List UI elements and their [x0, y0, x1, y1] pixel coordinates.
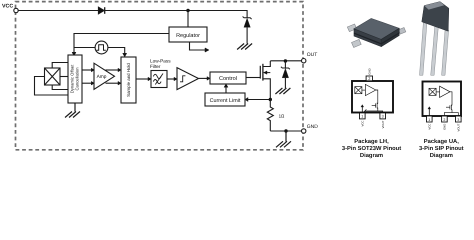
package LH caption: [342, 138, 401, 159]
diode D1 reverse protection: [98, 7, 104, 14]
svg-text:Dynamic Offset: Dynamic Offset: [69, 64, 74, 93]
amp (LH pinout): [362, 84, 376, 95]
pin 3 pad (UA): [456, 116, 462, 122]
ground at substrate: [276, 131, 291, 147]
svg-text:Low-Pass: Low-Pass: [150, 58, 171, 63]
clock oscillator: [95, 41, 108, 54]
zener clamp at output: [281, 61, 290, 88]
signal wires amp to sample and hold: [106, 68, 122, 85]
control block: [210, 72, 246, 84]
svg-text:1: 1: [361, 115, 363, 119]
svg-text:GND: GND: [443, 124, 447, 130]
svg-text:Control: Control: [219, 75, 237, 82]
signal wires offset cancellation to amp: [82, 68, 94, 85]
svg-text:Amp: Amp: [97, 74, 107, 80]
wire source sense to current limit: [245, 98, 270, 102]
wire regulator input: [187, 11, 189, 28]
svg-text:3: 3: [457, 118, 459, 122]
wire clock to sample and hold: [108, 48, 127, 57]
schmitt trigger comparator: [177, 68, 199, 90]
wire amp to mosfet (LH pinout): [376, 90, 378, 104]
wire sample and hold to low-pass filter: [136, 77, 151, 81]
svg-text:2: 2: [443, 118, 445, 122]
OUT terminal node: [302, 59, 306, 63]
wire hall bottom: [52, 85, 68, 90]
sense resistor R 1ohm: [267, 100, 273, 132]
svg-text:3-Pin SIP Pinout: 3-Pin SIP Pinout: [419, 145, 464, 152]
svg-text:Regulator: Regulator: [176, 33, 200, 39]
VCC terminal node: [14, 8, 18, 12]
wire hall left loop: [35, 77, 69, 96]
svg-text:VCC: VCC: [427, 124, 431, 130]
mosfet (UA pinout): [446, 105, 452, 113]
svg-text:3: 3: [382, 115, 384, 119]
svg-text:Package UA,: Package UA,: [424, 138, 460, 145]
svg-text:VOUT: VOUT: [381, 120, 385, 128]
regulator block: [169, 27, 207, 42]
mosfet (LH pinout): [372, 103, 378, 111]
wire hall right: [60, 76, 68, 78]
IC boundary dashed box: [16, 2, 304, 150]
svg-text:2: 2: [368, 76, 370, 81]
wire control to gate: [246, 77, 260, 79]
amp (UA pinout): [436, 86, 450, 97]
pin 3 pad (LH): [380, 113, 386, 119]
zener regulator clamp: [243, 17, 252, 44]
GND terminal node: [302, 129, 306, 133]
wire to pins (UA pinout): [444, 113, 458, 116]
amplifier: [94, 63, 115, 89]
package UA caption: [419, 138, 464, 159]
svg-text:VOUT: VOUT: [456, 123, 460, 131]
svg-text:VCC: VCC: [360, 121, 364, 127]
svg-text:Diagram: Diagram: [430, 152, 453, 159]
pin 1 pad (LH): [360, 113, 366, 119]
wire VCC rail to diode: [18, 10, 98, 12]
svg-text:Current Limit: Current Limit: [210, 98, 241, 104]
wire amp to mosfet (UA pinout): [450, 92, 452, 106]
hall element (UA pinout): [429, 88, 436, 95]
svg-text:OUT: OUT: [307, 52, 318, 58]
svg-text:GND: GND: [307, 124, 319, 130]
svg-text:Package LH,: Package LH,: [354, 138, 389, 145]
ground at offset cancellation: [65, 103, 80, 118]
wire drain to OUT: [270, 60, 301, 62]
svg-text:3-Pin SOT23W Pinout: 3-Pin SOT23W Pinout: [342, 145, 401, 152]
SOT23W package photo: [347, 18, 406, 47]
pin 1 pad (UA): [427, 116, 433, 122]
svg-text:1Ω: 1Ω: [279, 114, 285, 119]
svg-text:GND: GND: [367, 68, 371, 74]
pin 1 feed arrow (LH pinout): [361, 105, 364, 113]
package LH pinout outline: [352, 81, 393, 113]
package UA pinout outline: [423, 82, 462, 117]
low-pass filter block: [151, 71, 167, 88]
wire current limit to control: [224, 84, 228, 93]
wire regulated rail to offset cancellation: [72, 34, 169, 56]
ground at regulator zener: [237, 44, 252, 50]
junction source current limit: [269, 98, 272, 101]
svg-text:Cancellation: Cancellation: [75, 67, 80, 91]
svg-text:Sample and Hold: Sample and Hold: [126, 63, 131, 97]
pin 2 tab (LH): [366, 76, 372, 81]
svg-text:1: 1: [428, 118, 430, 122]
wire regulator output to subcircuits: [190, 42, 210, 52]
junction VCC rail / regulator: [186, 9, 189, 12]
output MOSFET Q1: [260, 61, 270, 100]
wire low-pass filter to schmitt trigger: [167, 77, 177, 81]
wire to pins (LH pinout): [363, 109, 383, 113]
sample and hold block: [121, 57, 136, 103]
ground at output zener: [275, 88, 290, 94]
wire VCC rail diode to zener corner: [105, 11, 247, 18]
junction GND rail: [284, 129, 287, 132]
pin 2 pad (UA): [442, 116, 448, 122]
current limit block: [205, 93, 245, 106]
svg-text:Filter: Filter: [150, 64, 161, 69]
junction drain zener: [284, 59, 287, 62]
wire source rail to GND: [270, 130, 301, 132]
pin 1 feed arrow (UA pinout): [428, 107, 431, 116]
wire schmitt to control: [199, 77, 211, 81]
hall element: [45, 68, 61, 85]
hall element (LH pinout): [355, 87, 362, 94]
SIP package photo: [420, 2, 449, 76]
wire clock to offset cancellation: [74, 47, 95, 49]
wire hall top: [52, 63, 68, 69]
dynamic offset cancellation block: [68, 55, 82, 103]
svg-text:VCC: VCC: [2, 4, 13, 10]
svg-text:Diagram: Diagram: [360, 152, 383, 159]
